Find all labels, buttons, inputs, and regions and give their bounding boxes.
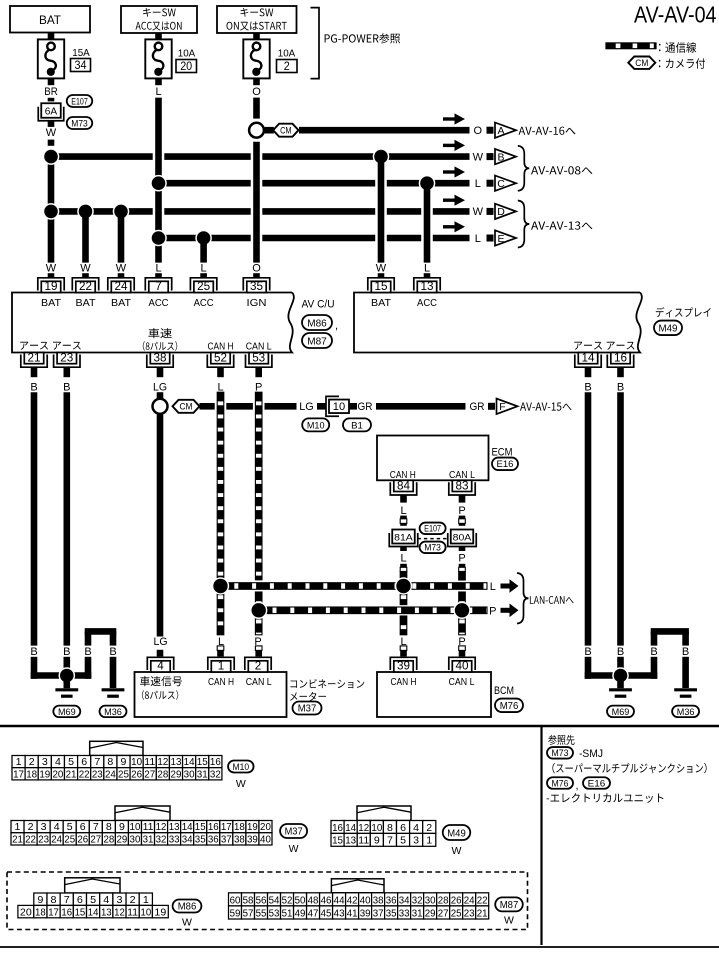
pin 14 bottom	[575, 351, 601, 368]
wire W stub pin24	[116, 263, 127, 279]
svg-text:M36: M36	[104, 707, 122, 718]
connector grid M86	[18, 893, 168, 918]
junction dot L-52	[212, 577, 229, 594]
svg-text:28: 28	[103, 833, 114, 845]
svg-text:A: A	[497, 125, 504, 137]
connector grid M37	[11, 821, 272, 846]
svg-text:M37: M37	[285, 827, 303, 838]
svg-text:L: L	[400, 553, 406, 565]
svg-text:20: 20	[52, 768, 63, 780]
label GR left	[358, 401, 373, 413]
junction dot row5-25	[195, 230, 212, 247]
label vehicle speed	[143, 328, 177, 351]
svg-text:7: 7	[93, 821, 99, 833]
svg-text:M36: M36	[677, 707, 695, 718]
svg-text:6A: 6A	[45, 105, 57, 117]
oval M36 right	[672, 706, 699, 718]
LAN line L	[221, 583, 488, 590]
svg-text:15A: 15A	[72, 47, 90, 59]
svg-text:W: W	[452, 845, 462, 857]
wire label L and connector triangle E	[475, 230, 516, 245]
svg-text:1: 1	[218, 660, 225, 672]
svg-text:L: L	[475, 178, 481, 190]
svg-text:21: 21	[66, 768, 77, 780]
oval M73	[67, 117, 93, 129]
svg-text:16: 16	[61, 906, 72, 918]
wire row O to A	[299, 127, 470, 134]
oval E16 ECM	[492, 458, 518, 471]
svg-text:L: L	[400, 505, 406, 517]
svg-text:W: W	[116, 263, 127, 275]
svg-text:58: 58	[243, 895, 254, 906]
pin 1	[208, 657, 234, 672]
svg-text:55: 55	[256, 908, 267, 919]
svg-text:B: B	[30, 381, 37, 393]
dashed link 81A-80A	[418, 538, 449, 540]
svg-text:CAN H: CAN H	[208, 676, 234, 688]
wire jumper right-a leg	[650, 632, 657, 679]
svg-text:M69: M69	[58, 707, 76, 718]
label CAN H 84	[390, 469, 416, 481]
svg-text:34: 34	[182, 833, 193, 845]
svg-text:BAT: BAT	[76, 297, 97, 309]
svg-text:84: 84	[397, 478, 410, 492]
svg-text:40: 40	[260, 833, 271, 845]
wire W stub pin19	[46, 263, 57, 279]
svg-text:18: 18	[35, 906, 46, 918]
svg-text:M37: M37	[298, 704, 317, 715]
svg-text:4: 4	[413, 822, 419, 834]
oval M36 left	[100, 706, 127, 718]
power source box BAT	[10, 6, 90, 33]
wire fuse down, O label	[252, 78, 261, 262]
oval M76 bcm	[495, 699, 523, 713]
svg-text:19: 19	[39, 768, 50, 780]
svg-text:9: 9	[374, 835, 380, 847]
wire jumper right-b leg	[682, 632, 689, 689]
svg-text:41: 41	[347, 908, 358, 919]
svg-text:ACC: ACC	[194, 297, 214, 309]
legend text 通信線	[659, 42, 696, 53]
svg-text:L: L	[424, 263, 430, 275]
svg-text:12: 12	[358, 822, 369, 834]
svg-text:L: L	[490, 581, 496, 593]
svg-text:W: W	[236, 778, 246, 790]
svg-text:25: 25	[451, 908, 462, 919]
svg-text:18: 18	[234, 821, 245, 833]
svg-text:M73: M73	[71, 118, 88, 129]
svg-text:14: 14	[182, 821, 193, 833]
oval M10	[302, 418, 329, 431]
svg-text:M73: M73	[552, 748, 569, 759]
label earth pin21	[20, 342, 48, 350]
svg-text:32: 32	[412, 895, 423, 906]
svg-text:21: 21	[28, 351, 41, 365]
wire B pin21 down	[30, 367, 37, 679]
wire jumper left leg	[84, 632, 91, 679]
svg-text:M69: M69	[612, 707, 630, 718]
svg-text:45: 45	[321, 908, 332, 919]
CM hexagon	[273, 124, 298, 137]
connector 80A	[448, 530, 477, 547]
legend text カメラ付	[659, 58, 705, 68]
junction dot left ground	[59, 667, 76, 684]
svg-text:23: 23	[464, 908, 475, 919]
destination AV-AV-16	[519, 127, 576, 135]
pin 24 BAT	[108, 278, 134, 309]
svg-text:83: 83	[456, 478, 469, 492]
label earth pin23	[53, 342, 81, 350]
svg-text:L: L	[201, 263, 207, 275]
destination AV-AV-13	[531, 221, 592, 229]
svg-text:12: 12	[114, 906, 125, 918]
wire O stub pin35	[252, 263, 261, 279]
svg-text:26: 26	[131, 768, 142, 780]
svg-text:51: 51	[282, 908, 293, 919]
svg-text:24: 24	[115, 279, 128, 293]
svg-text:17: 17	[48, 906, 59, 918]
svg-text:39: 39	[397, 660, 410, 672]
svg-text:B: B	[63, 646, 70, 658]
svg-text:26: 26	[451, 895, 462, 906]
svg-text:8: 8	[51, 894, 57, 906]
connector tab M49	[357, 806, 411, 821]
svg-text:CM: CM	[635, 58, 648, 68]
svg-text:,: ,	[335, 320, 338, 332]
svg-text:52: 52	[282, 895, 293, 906]
wire left ground bus	[31, 672, 92, 679]
svg-text:7: 7	[155, 279, 162, 293]
label ECM	[492, 446, 513, 458]
svg-text:18: 18	[26, 768, 37, 780]
svg-text:30: 30	[184, 768, 195, 780]
svg-text:W: W	[289, 843, 299, 855]
svg-text:9: 9	[37, 894, 43, 906]
svg-text:32: 32	[156, 833, 167, 845]
triangle F	[488, 399, 518, 414]
ground symbol M36 right	[674, 690, 697, 696]
svg-text:M73: M73	[424, 543, 441, 553]
svg-text:34: 34	[399, 895, 410, 906]
svg-text:16: 16	[210, 756, 221, 768]
svg-text:6: 6	[81, 756, 87, 768]
svg-text:5: 5	[68, 756, 74, 768]
junction dot row2-W	[43, 148, 60, 165]
svg-text:10: 10	[140, 906, 151, 918]
ground symbol M36 left	[102, 690, 125, 696]
svg-text:1: 1	[143, 894, 149, 906]
wire key ACC fuse stub	[155, 33, 162, 39]
wire 83 to 80A	[458, 495, 465, 526]
wire circle to CM hexagon	[265, 127, 274, 134]
svg-text:12: 12	[156, 821, 167, 833]
svg-text:44: 44	[334, 895, 345, 906]
notes heading	[548, 735, 574, 745]
svg-text:2: 2	[29, 756, 35, 768]
svg-text:14: 14	[345, 822, 356, 834]
svg-text:23: 23	[92, 768, 103, 780]
power source box key switch ACC	[121, 6, 197, 33]
svg-text:ACC: ACC	[417, 297, 437, 309]
svg-text:39: 39	[247, 833, 258, 845]
svg-text:81A: 81A	[394, 532, 413, 543]
svg-text:CM: CM	[180, 402, 193, 412]
svg-text:BR: BR	[44, 86, 58, 98]
svg-text:W: W	[182, 917, 192, 929]
connector 6A	[38, 103, 64, 121]
svg-text:35: 35	[250, 279, 263, 293]
wire to pin 25	[200, 238, 207, 263]
svg-text:O: O	[252, 263, 261, 275]
destination AV-AV-08	[531, 166, 592, 174]
junction dot L-ECM	[395, 577, 412, 594]
svg-text:38: 38	[234, 833, 245, 845]
wire jumper right top	[651, 628, 689, 635]
oval M86 grid	[173, 900, 202, 913]
svg-text:6: 6	[400, 822, 406, 834]
dashed option box	[7, 872, 528, 930]
wire L stub pin7	[155, 263, 161, 279]
svg-text:M10: M10	[233, 762, 250, 773]
svg-text:6: 6	[77, 894, 83, 906]
pin 19 BAT	[38, 278, 64, 309]
wire to pin 22	[82, 211, 89, 262]
oval M86	[302, 315, 338, 332]
svg-text:B: B	[584, 381, 591, 393]
svg-text:3: 3	[42, 756, 48, 768]
svg-text:W: W	[473, 206, 484, 218]
wire row W to B	[51, 153, 470, 160]
oval M87	[302, 333, 332, 348]
wire 80A down	[458, 547, 465, 611]
svg-text:5: 5	[90, 894, 96, 906]
svg-text:13: 13	[171, 756, 182, 768]
svg-text:25: 25	[64, 833, 75, 845]
wire L stub pin25	[201, 263, 207, 279]
svg-text:27: 27	[144, 768, 155, 780]
svg-text:15: 15	[195, 821, 206, 833]
svg-text:-SMJ: -SMJ	[579, 748, 603, 760]
wire label W and connector triangle D	[473, 204, 516, 219]
svg-text:59: 59	[230, 908, 241, 919]
pin 2	[245, 657, 271, 672]
svg-text:O: O	[252, 86, 261, 98]
svg-text:L: L	[155, 86, 161, 98]
svg-text:48: 48	[308, 895, 319, 906]
oval M69 left	[53, 706, 80, 718]
svg-text:31: 31	[197, 768, 208, 780]
svg-text:15: 15	[332, 835, 343, 847]
svg-text:17: 17	[221, 821, 232, 833]
svg-text:P: P	[489, 605, 496, 617]
arrow above row E	[443, 221, 465, 232]
wire label W and connector triangle B	[473, 149, 516, 164]
svg-text:23: 23	[38, 833, 49, 845]
svg-text:10: 10	[131, 756, 142, 768]
pin 39	[390, 657, 416, 672]
arrow above row B	[443, 140, 465, 151]
pin 23 bottom	[54, 351, 80, 368]
junction dot row5-L	[150, 230, 167, 247]
connector grid M87	[229, 893, 489, 920]
wire ECM H below line1	[400, 586, 407, 656]
svg-text:20: 20	[260, 821, 271, 833]
wire B pin14 down	[584, 367, 591, 679]
svg-text:CAN L: CAN L	[449, 676, 475, 688]
pin 13 ACC display	[414, 278, 440, 309]
svg-text:W: W	[46, 263, 57, 275]
brace B C	[518, 146, 530, 191]
svg-text:10: 10	[371, 822, 382, 834]
separator line top	[0, 725, 719, 728]
svg-text:27: 27	[90, 833, 101, 845]
wire LG vertical down to pin 4	[154, 414, 168, 656]
svg-text:B: B	[109, 646, 116, 658]
svg-text:BAT: BAT	[41, 297, 62, 309]
wire B pin23 down	[63, 367, 70, 675]
label BCM	[494, 685, 514, 697]
unit box ECM	[377, 436, 489, 481]
svg-text:80A: 80A	[453, 532, 472, 543]
pin 25 ACC	[190, 278, 216, 309]
wire right ground bus	[585, 672, 658, 679]
oval M49 grid	[443, 825, 471, 840]
svg-text:B: B	[63, 381, 70, 393]
svg-text:L: L	[155, 263, 161, 275]
svg-text:D: D	[497, 206, 505, 218]
label W M10	[236, 778, 246, 790]
svg-text:30: 30	[130, 833, 141, 845]
svg-text:20: 20	[20, 906, 32, 918]
svg-text:16: 16	[208, 821, 219, 833]
svg-text:1: 1	[16, 756, 22, 768]
pin 22 BAT	[72, 278, 98, 309]
junction dot row4-24	[113, 203, 130, 220]
svg-text:22: 22	[477, 895, 488, 906]
svg-text:20: 20	[180, 61, 192, 73]
svg-text:19: 19	[154, 906, 166, 918]
svg-text:10A: 10A	[178, 48, 196, 60]
svg-text:13: 13	[421, 279, 434, 293]
label LG	[299, 401, 314, 413]
oval M73 mid	[420, 542, 446, 554]
svg-text:8: 8	[387, 822, 393, 834]
svg-text:16: 16	[332, 822, 343, 834]
unit box combination meter	[135, 672, 287, 717]
svg-text:W: W	[376, 263, 387, 275]
junction dot P-53	[250, 602, 267, 619]
svg-text:P: P	[255, 381, 262, 393]
svg-text:4: 4	[54, 821, 60, 833]
svg-text:B: B	[497, 151, 504, 163]
label earth pin14	[574, 342, 602, 350]
svg-text:37: 37	[221, 833, 232, 845]
legend communication line symbol	[606, 43, 656, 49]
camera option circle	[249, 123, 264, 138]
LAN line P	[259, 607, 487, 614]
svg-text:21: 21	[12, 833, 23, 845]
oval M76 notes	[547, 777, 579, 792]
svg-text:P: P	[458, 553, 465, 565]
destination AV-AV-15	[520, 403, 572, 411]
svg-text:AV C/U: AV C/U	[302, 299, 335, 311]
notes SMJ	[579, 748, 603, 760]
svg-text:B: B	[584, 646, 591, 658]
label CAN H pin52	[208, 340, 234, 352]
wire label O and connector triangle A	[474, 123, 516, 138]
svg-text:L: L	[217, 381, 223, 393]
svg-text:22: 22	[25, 833, 36, 845]
svg-text:22: 22	[79, 279, 92, 293]
svg-text:W: W	[473, 151, 484, 163]
pin 84	[390, 478, 416, 495]
pin 53 bottom	[246, 351, 272, 368]
pin 40	[449, 657, 475, 672]
svg-text:B: B	[30, 646, 37, 658]
wire CAN L below	[254, 592, 262, 656]
svg-text:B: B	[617, 646, 624, 658]
svg-text:1: 1	[15, 821, 21, 833]
wire row L to C	[159, 180, 470, 187]
svg-text:ACC: ACC	[149, 297, 169, 309]
svg-text:CM: CM	[280, 125, 291, 135]
CM hexagon 2	[173, 400, 200, 413]
wire CAN H pin52 down	[217, 367, 224, 586]
svg-text:37: 37	[373, 908, 384, 919]
svg-text:2: 2	[426, 822, 432, 834]
title AV-AV-04	[634, 1, 717, 27]
svg-text:36: 36	[208, 833, 219, 845]
svg-text:O: O	[474, 125, 483, 137]
label CAN L 83	[449, 469, 475, 481]
svg-text:40: 40	[456, 660, 469, 672]
svg-text:L: L	[475, 233, 481, 245]
label W M37	[289, 843, 299, 855]
arrow above row D	[443, 195, 465, 206]
svg-text:29: 29	[425, 908, 436, 919]
wire 84 to 81A	[400, 495, 407, 526]
notes super multiple junction	[552, 763, 706, 774]
notes electrical unit	[547, 793, 664, 803]
PG-POWER bracket	[311, 8, 320, 79]
wire fuse to pin7, L label	[155, 78, 161, 262]
svg-text:13: 13	[345, 835, 356, 847]
svg-text:60: 60	[230, 895, 241, 906]
svg-text:M87: M87	[500, 900, 519, 911]
svg-text:AV-AV-04: AV-AV-04	[634, 1, 717, 27]
label CAN L combi	[246, 676, 272, 688]
wire pin38 LG down	[153, 367, 167, 398]
wire to pin 13	[424, 183, 431, 262]
svg-text:21: 21	[477, 908, 488, 919]
svg-text:W: W	[504, 914, 514, 926]
svg-text:5: 5	[400, 835, 406, 847]
svg-text:3: 3	[41, 821, 47, 833]
label CAN H bcm	[391, 676, 417, 688]
svg-text:29: 29	[117, 833, 128, 845]
svg-text:10A: 10A	[278, 48, 296, 60]
svg-text:7: 7	[64, 894, 70, 906]
svg-text:11: 11	[144, 756, 155, 768]
svg-text:P: P	[458, 505, 465, 517]
svg-text:52: 52	[214, 351, 227, 365]
label CAN H combi	[208, 676, 234, 688]
svg-text:E107: E107	[424, 524, 441, 534]
svg-text:B: B	[617, 381, 624, 393]
legend CM hexagon	[628, 57, 655, 69]
svg-text:39: 39	[360, 908, 371, 919]
label P arrow	[489, 604, 518, 618]
